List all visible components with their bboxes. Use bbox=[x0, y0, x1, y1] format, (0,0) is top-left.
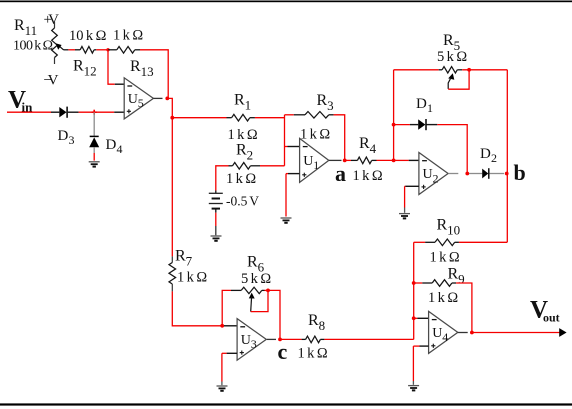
svg-text:R: R bbox=[359, 135, 370, 152]
wire to R4 bbox=[345, 159, 351, 161]
wire U4 output bbox=[458, 332, 468, 334]
resistor R9 bbox=[432, 280, 452, 287]
svg-text:4: 4 bbox=[370, 141, 377, 156]
node R6 right bbox=[266, 289, 270, 293]
wiper R11 bbox=[60, 46, 64, 49]
wire to R1 bbox=[172, 117, 226, 119]
svg-text:1 k Ω: 1 k Ω bbox=[177, 269, 207, 285]
node U3 minus junction bbox=[220, 324, 224, 328]
wire node to U5 minus bbox=[108, 50, 115, 84]
node b bbox=[505, 172, 509, 176]
wire to D2 bbox=[469, 173, 482, 175]
node R12-R13 bbox=[106, 48, 109, 51]
resistor R2 bbox=[233, 163, 251, 170]
svg-text:U: U bbox=[432, 326, 442, 341]
resistor R1 bbox=[232, 114, 250, 121]
svg-text:b: b bbox=[514, 160, 526, 185]
wire battery to ground bbox=[215, 209, 217, 213]
svg-text:10 k Ω: 10 k Ω bbox=[69, 28, 107, 44]
ground U2 bbox=[399, 213, 410, 215]
wire R2 to battery bbox=[229, 165, 233, 167]
wire D1 cathode bbox=[426, 124, 437, 126]
svg-text:1 k Ω: 1 k Ω bbox=[228, 127, 258, 143]
wire R6 right bbox=[262, 289, 265, 291]
wire Vin input bbox=[7, 111, 51, 113]
svg-text:1 k Ω: 1 k Ω bbox=[300, 127, 330, 143]
wire to U5 plus bbox=[114, 111, 124, 113]
svg-text:R: R bbox=[308, 312, 319, 329]
svg-text:10: 10 bbox=[447, 223, 460, 238]
wire U1 output bbox=[329, 159, 342, 161]
resistor R8 bbox=[306, 336, 321, 343]
diode D3 bbox=[59, 107, 66, 117]
svg-text:3: 3 bbox=[327, 98, 334, 113]
svg-text:R: R bbox=[317, 92, 328, 109]
resistor R7 bbox=[171, 256, 173, 262]
resistor R12 bbox=[80, 47, 94, 54]
wire R4 to U2 bbox=[372, 159, 377, 161]
svg-text:1 k Ω: 1 k Ω bbox=[113, 27, 143, 43]
wire R6 left leg bbox=[222, 290, 231, 325]
diode D4 bbox=[93, 112, 95, 136]
svg-text:R: R bbox=[234, 92, 245, 109]
wire R9 left bbox=[414, 282, 423, 284]
svg-text:13: 13 bbox=[141, 64, 154, 79]
node U2 out bbox=[465, 172, 469, 176]
svg-text:5: 5 bbox=[138, 96, 144, 110]
svg-text:100 k Ω: 100 k Ω bbox=[13, 39, 53, 54]
wire U2 plus bbox=[405, 185, 419, 187]
potentiometer R5 bbox=[442, 67, 457, 73]
wire to R8 bbox=[280, 338, 302, 340]
wire R12 to node bbox=[94, 49, 96, 51]
svg-text:8: 8 bbox=[319, 318, 326, 333]
svg-text:3: 3 bbox=[251, 337, 257, 351]
svg-text:1 k Ω: 1 k Ω bbox=[226, 171, 256, 187]
svg-text:a: a bbox=[335, 161, 346, 186]
svg-text:2: 2 bbox=[433, 171, 439, 185]
wire R3 right to U1 out bbox=[329, 114, 334, 116]
wire R5 right bbox=[457, 69, 462, 71]
border top bbox=[0, 1, 572, 3]
svg-text:1 k Ω: 1 k Ω bbox=[353, 168, 383, 184]
wire minus node up to R5 bbox=[393, 70, 395, 161]
diode D1 bbox=[418, 119, 425, 129]
node c bbox=[278, 338, 282, 342]
wiper loop R6 bbox=[251, 290, 268, 311]
svg-text:11: 11 bbox=[25, 23, 38, 38]
node R5 right bbox=[467, 68, 471, 72]
svg-text:1 k Ω: 1 k Ω bbox=[298, 345, 328, 361]
op-amp U3 bbox=[237, 319, 266, 361]
svg-text:U: U bbox=[128, 92, 138, 107]
wire U2 output bbox=[448, 173, 458, 175]
svg-text:4: 4 bbox=[117, 142, 123, 156]
wire D3 to node bbox=[68, 111, 79, 113]
wire U3 plus bbox=[227, 352, 238, 354]
ground D4 bbox=[89, 161, 100, 163]
wire R1 to node bbox=[250, 117, 255, 119]
border bottom bbox=[0, 403, 572, 405]
svg-text:7: 7 bbox=[186, 254, 193, 269]
wire R13 to feedback corner bbox=[140, 50, 168, 99]
svg-text:5 k Ω: 5 k Ω bbox=[437, 49, 467, 65]
node U2 minus bbox=[392, 159, 396, 163]
node a bbox=[343, 159, 347, 163]
node R9 junction bbox=[412, 281, 416, 285]
svg-text:3: 3 bbox=[69, 133, 75, 147]
wire R5 row bbox=[394, 69, 439, 71]
svg-text:−V: −V bbox=[44, 73, 59, 89]
wire U4 plus bbox=[420, 345, 429, 347]
wiper loop R5 bbox=[448, 70, 469, 89]
wire R9 right bbox=[452, 282, 456, 284]
svg-text:9: 9 bbox=[458, 272, 465, 287]
op-amp U4 bbox=[429, 311, 458, 353]
svg-text:U: U bbox=[241, 333, 251, 348]
svg-text:U: U bbox=[423, 167, 433, 182]
ground U1 plus bbox=[281, 217, 292, 219]
op-amp U5 bbox=[124, 78, 153, 119]
node U4 minus bbox=[412, 316, 416, 320]
op-amp U1 bbox=[300, 138, 329, 182]
wire U1 plus stub bbox=[288, 173, 300, 175]
wire U1 minus stub bbox=[285, 146, 288, 148]
svg-text:U: U bbox=[303, 154, 313, 169]
svg-text:c: c bbox=[278, 339, 288, 364]
wire R8 right bbox=[320, 338, 324, 340]
wire R10 row bbox=[459, 241, 507, 243]
svg-text:R: R bbox=[130, 58, 141, 75]
svg-text:R: R bbox=[247, 254, 258, 271]
wiper R5 bbox=[448, 73, 454, 80]
wire R10 left bbox=[425, 241, 435, 243]
wire Vout bbox=[472, 332, 560, 334]
svg-text:R: R bbox=[443, 32, 454, 49]
svg-text:2: 2 bbox=[247, 148, 254, 163]
svg-text:R: R bbox=[437, 217, 448, 234]
wire b vertical bbox=[506, 70, 508, 243]
resistor R4 bbox=[357, 157, 371, 164]
svg-text:5 k Ω: 5 k Ω bbox=[241, 271, 271, 287]
resistor R3 bbox=[305, 112, 329, 119]
wire vertical minus node U1 bbox=[284, 115, 286, 166]
node U4 out bbox=[470, 331, 474, 335]
arrow Vout bbox=[559, 328, 566, 337]
resistor R2 wire bbox=[260, 165, 285, 167]
svg-text:1: 1 bbox=[245, 98, 252, 113]
node junction Vin-D4 bbox=[92, 111, 97, 113]
wire D4 to ground bbox=[93, 147, 95, 153]
svg-text:D: D bbox=[480, 146, 491, 162]
svg-text:2: 2 bbox=[491, 151, 497, 165]
wire U5 out corner down bbox=[167, 98, 172, 256]
wire R7 down to U3 bbox=[172, 291, 222, 325]
svg-text:out: out bbox=[543, 311, 560, 325]
battery -0.5V bbox=[209, 192, 223, 194]
svg-text:12: 12 bbox=[84, 64, 97, 79]
wiper R6 bbox=[249, 293, 255, 299]
ground battery bbox=[211, 235, 222, 237]
potentiometer R11 bbox=[54, 22, 56, 29]
svg-text:+V: +V bbox=[44, 12, 60, 28]
diode D2 bbox=[482, 169, 488, 179]
op-amp U2 bbox=[419, 153, 448, 195]
svg-text:R: R bbox=[14, 17, 25, 34]
svg-text:1: 1 bbox=[313, 158, 319, 172]
svg-text:1 k Ω: 1 k Ω bbox=[428, 290, 458, 306]
svg-text:R: R bbox=[73, 58, 84, 75]
resistor R13 bbox=[108, 49, 117, 51]
wire wiper to R12 bbox=[64, 49, 69, 51]
svg-text:D: D bbox=[58, 128, 69, 144]
node D1 anode bbox=[392, 123, 396, 127]
wire U5 output bbox=[153, 97, 162, 99]
svg-text:D: D bbox=[106, 137, 117, 153]
svg-text:R: R bbox=[448, 266, 459, 283]
ground U4 bbox=[408, 385, 419, 387]
wire U3 output bbox=[267, 338, 276, 340]
svg-text:4: 4 bbox=[442, 330, 448, 344]
svg-text:R: R bbox=[236, 142, 247, 159]
ground U3 bbox=[217, 385, 228, 387]
wire minus vertical U4 bbox=[413, 242, 415, 339]
node branch R1 bbox=[170, 116, 174, 120]
svg-text:R: R bbox=[175, 248, 186, 265]
wire R3 left bbox=[285, 114, 294, 116]
potentiometer R6 bbox=[241, 287, 262, 293]
svg-text:1: 1 bbox=[427, 101, 433, 115]
wire D1 anode bbox=[394, 124, 410, 126]
wire D2 to b bbox=[489, 173, 504, 175]
node U5 out bbox=[165, 97, 169, 101]
svg-text:D: D bbox=[416, 96, 427, 112]
svg-text:1 k Ω: 1 k Ω bbox=[430, 249, 460, 265]
resistor R10 bbox=[435, 239, 455, 246]
svg-text:-0.5 V: -0.5 V bbox=[226, 193, 259, 208]
